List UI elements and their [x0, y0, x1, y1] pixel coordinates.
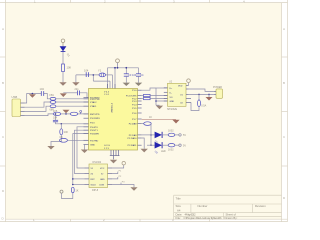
svg-text:P3.1/TXD: P3.1/TXD	[90, 99, 100, 101]
svg-text:SP3232E: SP3232E	[167, 108, 178, 111]
svg-text:COM: COM	[99, 185, 104, 187]
U3 pin names	[91, 168, 106, 187]
node	[61, 123, 63, 125]
pin terminal	[175, 134, 186, 137]
U1 left pin stubs	[84, 98, 89, 145]
resistor R11	[162, 130, 175, 137]
wire	[62, 193, 73, 199]
resistor R3	[50, 105, 56, 112]
capacitor C5	[53, 117, 58, 122]
wire	[62, 72, 64, 83]
svg-text:P3.4/T0: P3.4/T0	[90, 127, 98, 129]
svg-text:1K02: 1K02	[168, 149, 174, 152]
wire gnd stem	[142, 138, 145, 149]
svg-text:SCLK: SCLK	[91, 185, 97, 187]
svg-text:VO: VO	[170, 97, 173, 99]
wire	[68, 139, 89, 141]
svg-text:FT232BM: FT232BM	[110, 103, 112, 113]
node	[198, 94, 200, 96]
title block text	[176, 197, 267, 221]
resistor R2	[50, 101, 56, 104]
capacitor C4	[136, 73, 144, 83]
node	[208, 94, 210, 96]
power port VCC3	[187, 79, 191, 86]
wire	[55, 114, 57, 120]
svg-text:P1.3: P1.3	[132, 101, 137, 103]
svg-text:Title: Title	[176, 197, 182, 201]
pin terminal	[175, 144, 186, 147]
ground G9	[60, 190, 63, 193]
capacitor C7	[75, 88, 80, 95]
svg-text:P2.3/A11: P2.3/A11	[128, 144, 138, 147]
svg-text:C4: C4	[140, 73, 144, 77]
ground	[123, 83, 130, 86]
ground	[81, 150, 88, 154]
wire	[112, 172, 134, 188]
node	[155, 100, 157, 102]
wire	[56, 122, 89, 124]
ground	[72, 82, 79, 85]
svg-text:1K: 1K	[76, 190, 79, 193]
U1 pin names right	[126, 90, 137, 147]
U2 pin names	[170, 86, 184, 105]
svg-text:File:: File:	[176, 216, 182, 220]
svg-text:B: B	[283, 81, 285, 85]
inductor L1	[50, 94, 56, 100]
svg-text:GND: GND	[100, 179, 105, 181]
svg-text:P2.0/A8: P2.0/A8	[129, 123, 138, 126]
svg-text:USB: USB	[12, 95, 18, 99]
node	[150, 144, 152, 146]
wire	[56, 101, 89, 103]
svg-text:P2.2/A10: P2.2/A10	[128, 137, 138, 140]
ground	[141, 149, 148, 153]
svg-text:GND: GND	[170, 101, 175, 103]
svg-text:VDD: VDD	[178, 86, 183, 88]
capacitor C3	[124, 73, 137, 83]
U3 right pin stubs	[108, 168, 113, 185]
resistor R1	[62, 64, 72, 72]
wire staircase 1	[77, 127, 89, 168]
node	[150, 134, 152, 136]
resistor R8	[144, 94, 151, 96]
connector J1	[213, 86, 223, 99]
wire	[112, 165, 124, 168]
wire	[147, 144, 155, 146]
wire	[73, 184, 85, 186]
wire usb d+	[25, 106, 51, 111]
U2 left pin stubs	[164, 88, 168, 101]
crystal Y1	[98, 69, 106, 77]
svg-text:LED: LED	[161, 150, 166, 153]
capacitor C2	[84, 69, 89, 78]
wire avcc row	[63, 93, 88, 98]
resistor R10	[142, 116, 153, 126]
svg-text:5V: 5V	[183, 144, 186, 147]
svg-text:22p: 22p	[75, 88, 80, 91]
pin terminal	[80, 110, 82, 114]
svg-text:1K02: 1K02	[168, 130, 174, 133]
IC U2	[167, 81, 186, 112]
svg-text:1K: 1K	[149, 116, 152, 119]
svg-text:5V: 5V	[183, 134, 186, 137]
svg-text:P1.0: P1.0	[132, 90, 137, 92]
node	[55, 113, 57, 115]
svg-text:XTAL1: XTAL1	[90, 105, 97, 108]
wire	[56, 105, 89, 107]
wire	[62, 46, 64, 65]
wire to ISP con	[189, 89, 214, 94]
ground	[47, 146, 54, 150]
wire	[73, 178, 85, 180]
svg-text:P3.5/T1: P3.5/T1	[90, 130, 98, 132]
svg-text:B: B	[2, 81, 4, 85]
LED D3	[154, 142, 166, 155]
U3 left pin stubs	[85, 168, 90, 185]
svg-text:C 0 1: C 0 1	[104, 94, 110, 96]
svg-text:P3.6/WR: P3.6/WR	[90, 134, 99, 136]
svg-text:A: A	[2, 27, 4, 31]
svg-text:0.5A: 0.5A	[201, 105, 206, 108]
wire	[51, 135, 61, 146]
ground	[156, 106, 163, 110]
ground	[172, 120, 179, 124]
wire usb d-	[25, 102, 51, 107]
ground	[110, 160, 117, 164]
wire	[61, 113, 70, 115]
svg-text:P1.4: P1.4	[132, 105, 137, 107]
capacitor C6	[60, 136, 68, 142]
resistor R4	[53, 110, 61, 116]
svg-text:IO: IO	[101, 174, 104, 176]
svg-text:POWER: POWER	[213, 86, 222, 89]
ground	[206, 94, 213, 100]
svg-text:P2.1/A9: P2.1/A9	[129, 134, 138, 137]
node	[72, 184, 74, 186]
svg-text:1K5: 1K5	[53, 110, 58, 113]
svg-text:C3 104: C3 104	[128, 73, 137, 77]
wire staircase 3	[73, 134, 89, 185]
svg-text:P1.1/T2EX: P1.1/T2EX	[126, 96, 137, 98]
capacitor C1	[40, 87, 45, 96]
title block	[174, 195, 282, 219]
ground	[135, 83, 142, 86]
svg-text:P1.5: P1.5	[132, 108, 137, 110]
ground	[130, 187, 137, 191]
svg-text:C:\Program Files\..\usb avr fi: C:\Program Files\..\usb avr fighter.ddb	[184, 216, 222, 220]
wire	[60, 124, 62, 129]
svg-text:RST/VPD: RST/VPD	[90, 114, 100, 116]
wire VCC rail	[108, 68, 139, 89]
U1 refdes	[104, 92, 112, 150]
svg-text:FB1: FB1	[50, 94, 55, 97]
U1 bottom pin stubs	[110, 150, 120, 159]
node rail junctions	[114, 67, 127, 69]
svg-text:VCC: VCC	[100, 168, 105, 170]
wire	[142, 134, 155, 136]
svg-text:104: 104	[84, 69, 89, 73]
svg-text:GND: GND	[90, 145, 95, 147]
wire gnd left	[84, 145, 85, 150]
svg-text:RST: RST	[91, 179, 96, 181]
fuse F1	[191, 94, 207, 110]
svg-text:Number: Number	[198, 204, 208, 208]
power port VCC4	[122, 162, 125, 165]
U1 pin names left	[90, 97, 101, 146]
U2 right pin stubs	[186, 86, 191, 103]
node	[93, 74, 95, 76]
ground	[59, 82, 66, 85]
svg-text:Revision: Revision	[255, 204, 266, 208]
svg-text:P1.6: P1.6	[132, 113, 137, 115]
node	[65, 113, 67, 115]
resistor R5	[70, 112, 78, 115]
connector USB1	[12, 95, 25, 117]
svg-text:Y1: Y1	[98, 69, 102, 73]
svg-text:P1.7: P1.7	[132, 119, 137, 121]
wire	[76, 75, 113, 89]
power port VCC2	[116, 59, 120, 68]
svg-text:P3.3: P3.3	[90, 123, 95, 125]
resistor R9	[144, 97, 151, 99]
node	[32, 93, 34, 95]
LED D2	[154, 132, 162, 145]
node label	[119, 170, 126, 183]
svg-text:DS1302: DS1302	[93, 161, 102, 164]
U1 right pin stubs	[138, 90, 142, 145]
svg-text:G V G: G V G	[104, 145, 110, 147]
wire usb gnd row	[25, 114, 54, 116]
svg-text:104: 104	[53, 117, 58, 120]
IC U3	[89, 161, 108, 192]
wire	[56, 98, 89, 100]
IC U1	[89, 89, 138, 151]
resistor R7	[71, 187, 78, 193]
ground	[63, 110, 70, 114]
ground	[60, 93, 67, 97]
svg-text:Drawn By:: Drawn By:	[225, 216, 238, 220]
resistor R6	[60, 129, 69, 135]
wire	[150, 124, 152, 146]
power port VCC1	[61, 39, 65, 46]
svg-text:P3.2/INT0: P3.2/INT0	[90, 118, 101, 120]
svg-text:XTAL2: XTAL2	[90, 101, 97, 104]
wire usb vbus	[25, 94, 51, 104]
svg-text:10K: 10K	[67, 66, 72, 70]
resistor R12	[162, 144, 175, 152]
svg-text:A: A	[283, 27, 285, 31]
wire	[142, 88, 168, 105]
svg-text:DIP-8: DIP-8	[92, 189, 99, 192]
wire staircase 2	[75, 130, 89, 173]
svg-text:P3.7/RD: P3.7/RD	[90, 140, 99, 142]
U1 top pin stubs	[108, 84, 116, 89]
wire	[78, 113, 89, 115]
ground	[29, 94, 36, 98]
wire	[142, 118, 176, 120]
svg-text:104: 104	[40, 87, 45, 91]
diode D1	[60, 46, 72, 58]
node	[72, 178, 74, 180]
svg-text:10K: 10K	[64, 131, 69, 134]
svg-text:D-: D-	[170, 92, 173, 94]
